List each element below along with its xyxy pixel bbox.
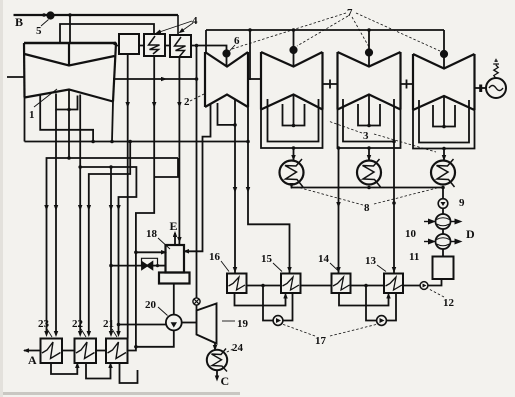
heater 22 (75, 339, 97, 364)
wire line into pump 20 side (119, 324, 167, 326)
wire feedwater line A through heaters (24, 350, 106, 352)
valve bypass loop (142, 258, 158, 265)
valve throttle on turbine 19 inlet (193, 298, 200, 305)
wire branch H167 (80, 167, 136, 334)
shaft coupling T2-LP1 (248, 78, 261, 80)
scan smudge bottom edge (0, 392, 240, 395)
wire T2 extraction to heater 16 (234, 125, 236, 274)
label 23 (38, 318, 52, 337)
junction dot (292, 146, 296, 150)
svg-text:12: 12 (443, 297, 455, 309)
valve box 4a (119, 34, 139, 54)
wire 11 to pump 12 (428, 279, 442, 286)
node C outlet (217, 370, 229, 388)
svg-text:A: A (28, 353, 37, 367)
wire cascade 16 to 15 (235, 293, 286, 306)
cooler box 11 (433, 257, 454, 280)
svg-text:10: 10 (405, 228, 417, 240)
label 7 with dashed leaders (232, 7, 440, 51)
wire pump 12 to heater 13 (403, 285, 420, 287)
svg-text:1: 1 (29, 109, 35, 121)
svg-text:17: 17 (315, 335, 327, 347)
wire extraction branch H158 (47, 158, 179, 334)
turbine U2 (205, 52, 248, 107)
wire HP-T2 shaft line with arrow (113, 78, 197, 80)
junction dot (113, 42, 117, 46)
svg-text:23: 23 (38, 318, 50, 330)
junction dot (392, 201, 396, 205)
wire LP steam header (206, 29, 444, 31)
flow arrows on extraction drops (46, 203, 48, 208)
wire cascade drain 22 to 21 (86, 363, 111, 379)
svg-text:15: 15 (261, 253, 273, 265)
svg-text:9: 9 (459, 197, 465, 209)
wire drain valve box 4b jog down (128, 56, 155, 351)
wire header drop (249, 30, 251, 80)
label 19 (222, 318, 249, 330)
wire 10a to 10b (442, 229, 444, 234)
wire T2 extraction to deaerator (184, 104, 211, 252)
label 12 with dashed leader (428, 289, 455, 310)
generator G (486, 59, 506, 98)
wire turbine feed (69, 15, 71, 43)
shaft coupling LP1-LP2 (323, 80, 338, 89)
label 2 (184, 94, 204, 108)
junction dot (246, 140, 250, 144)
deaerator 18 tank (166, 245, 185, 273)
turbine U1 (HP, double flow) (24, 43, 116, 102)
svg-text:E: E (170, 219, 178, 233)
junction dot (134, 251, 138, 255)
wire valve box row (116, 45, 197, 47)
wire drain valve box 4c to deaerator top (178, 57, 180, 245)
valve 7b (366, 49, 372, 55)
wire turbine 19 exhaust (214, 343, 216, 350)
label 3 with dashed leaders (328, 121, 436, 152)
wire 9 to 10a (442, 208, 444, 214)
wire cascade drain 23 to 22 (51, 363, 77, 374)
turbine LP2 (338, 52, 401, 110)
label 13 (365, 255, 386, 272)
wire heater drain line to valve (111, 265, 142, 267)
junction dot (442, 147, 446, 151)
svg-text:20: 20 (145, 299, 157, 311)
wire HP right corner drop (112, 102, 113, 142)
svg-text:16: 16 (209, 251, 221, 263)
wire steam to valve 6 (197, 46, 227, 67)
svg-text:8: 8 (364, 202, 370, 214)
svg-text:C: C (221, 374, 230, 388)
label 5 (36, 20, 49, 38)
svg-text:4: 4 (192, 15, 198, 27)
junction dot (117, 323, 121, 327)
wire drain valve box 4a (127, 54, 129, 339)
svg-text:24: 24 (232, 342, 244, 354)
junction dot (337, 146, 341, 150)
junction dot (367, 146, 371, 150)
wire LP3 waist drop (443, 96, 445, 127)
junction dot (367, 124, 371, 128)
drain pump 17a (273, 316, 283, 326)
svg-text:11: 11 (409, 251, 419, 263)
junction dot (156, 264, 159, 267)
shaft coupling LP2-LP3 (401, 80, 414, 89)
wire LP2 condenser drop (368, 148, 370, 161)
junction dot (109, 165, 113, 169)
wire second steam header (60, 24, 154, 43)
svg-text:18: 18 (146, 228, 158, 240)
label 6 (230, 35, 241, 51)
label 15 (261, 253, 282, 272)
wire LP2 manifold (338, 110, 401, 149)
wire LP1 exhaust U2 (268, 99, 319, 142)
condenser 8a (280, 159, 304, 187)
heater 21 (106, 339, 128, 364)
wire LP1 manifold (261, 110, 323, 149)
svg-text:D: D (466, 227, 475, 241)
svg-text:2: 2 (184, 96, 190, 108)
label 20 (145, 299, 168, 316)
junction dot (110, 140, 114, 144)
wire steam line to pump turbine (196, 46, 198, 299)
wire LP1 exhaust U1 (283, 104, 305, 126)
valve on deaerator inlet (142, 262, 152, 269)
wire HP waist extraction down (68, 90, 70, 159)
wire LP3 exhaust U1 (433, 105, 455, 127)
label 21 (103, 318, 117, 337)
heater 15 (281, 274, 301, 294)
turbine LP3 (413, 54, 475, 110)
heater 23 (41, 339, 63, 364)
junction dot (292, 124, 296, 128)
wire deaerator left inlet (136, 251, 166, 253)
wire LP3 manifold (413, 110, 475, 149)
junction dot (442, 125, 446, 129)
label 8 with dashed leaders (297, 187, 437, 214)
label 4 with leader arrows (158, 15, 198, 33)
ejector 10b (424, 234, 459, 249)
wire drain pump loop 13 (366, 286, 396, 321)
junction dot (292, 28, 296, 32)
heater 13 (384, 274, 403, 294)
node B main steam line (14, 15, 179, 35)
wire HP inlet stub (7, 76, 25, 78)
wire 10b to 11 (442, 249, 444, 257)
wire extraction zig 2 (40, 96, 93, 142)
wire LP2 extraction to heater 13 (393, 142, 395, 274)
condenser 24 (207, 349, 227, 372)
junction dot (195, 44, 199, 48)
deaerator pedestal (159, 273, 190, 284)
shaft coupling LP3-generator (475, 87, 487, 89)
label 18 (146, 228, 170, 249)
junction dot (367, 186, 371, 190)
junction dot (248, 28, 252, 32)
junction dot (42, 13, 46, 17)
valve box 4b (144, 34, 165, 56)
wire HP exhaust left down (24, 98, 26, 142)
wire extraction to heater 22 a (79, 95, 81, 334)
wire pump 20 discharge to feed line (136, 330, 174, 346)
valve 5 (47, 12, 53, 18)
wire LP1 condenser drop (293, 148, 295, 161)
wire pump 20 shaft (182, 322, 197, 324)
label 1 (29, 89, 57, 121)
svg-text:3: 3 (363, 130, 369, 142)
node E vent (170, 219, 178, 245)
junction dot (91, 140, 95, 144)
wire LP3 condenser drop (443, 149, 445, 161)
turbine LP1 (261, 52, 323, 110)
label 17 with dashed leaders (282, 324, 378, 347)
svg-text:21: 21 (103, 318, 114, 330)
wire LP2 waist drop (368, 95, 370, 126)
junction dot (195, 77, 199, 81)
junction dot (67, 108, 71, 112)
drain pump 17b (377, 316, 387, 326)
svg-text:5: 5 (36, 25, 42, 37)
wire LP2 exhaust U1 (358, 104, 380, 126)
feed pump 20 (166, 315, 182, 331)
wire condensate drain manifold (292, 184, 444, 188)
junction dot (261, 284, 265, 288)
valve box 4c (170, 35, 191, 57)
wire LP1 waist drop (293, 95, 295, 126)
wire reheat branch to heater 22 b (89, 142, 130, 334)
valve 6 (223, 50, 229, 56)
junction dot (78, 165, 82, 169)
svg-text:22: 22 (72, 318, 84, 330)
drive turbine 19 (197, 304, 217, 344)
junction dot (392, 140, 396, 144)
svg-text:B: B (15, 15, 23, 29)
svg-text:13: 13 (365, 255, 377, 267)
wire T2 exhaust U (218, 100, 236, 125)
label 16 (209, 251, 229, 272)
wire braid link (154, 158, 178, 177)
valve 9 (438, 199, 448, 209)
junction dot (367, 28, 371, 32)
junction dot (441, 186, 445, 190)
valve 7c (441, 51, 447, 57)
wire HP extraction U (56, 94, 78, 110)
junction dot (134, 345, 138, 349)
wire LP3 exhaust U2 (419, 100, 469, 143)
wire cascade 14 to 13 (339, 293, 389, 306)
junction dot (67, 156, 71, 160)
label 22 (72, 318, 86, 337)
heater 16 (227, 274, 247, 294)
junction dot (68, 13, 72, 17)
wire cold reheat header H141 (25, 141, 249, 143)
wire cascade drain 21 (120, 363, 138, 383)
wire T2 extraction to heater 15 (248, 107, 290, 274)
wire LP2 extraction to heater 14 (338, 148, 340, 274)
svg-text:19: 19 (237, 318, 249, 330)
wire drain pump loop 15 (263, 286, 293, 321)
exciter zigzag (494, 65, 498, 79)
condenser 8c (431, 159, 455, 187)
wire condensate line through heaters (247, 285, 385, 287)
junction dot (109, 264, 113, 268)
wire LP2 exhaust U2 right (343, 99, 394, 142)
wire drop to ejector chain (442, 188, 444, 199)
wire extraction to heater 23 b (55, 110, 57, 334)
ejector 10a (424, 214, 459, 229)
junction dot (364, 284, 368, 288)
svg-text:14: 14 (318, 253, 330, 265)
junction dot (128, 140, 132, 144)
condenser 8b (357, 159, 381, 187)
junction dot (233, 123, 237, 127)
label 24 with dashed leader (224, 342, 244, 354)
pump 12 (420, 282, 428, 290)
heater 14 (332, 274, 351, 294)
wire deaerator to feed pump 20 (173, 284, 175, 315)
valve 7a (290, 47, 296, 53)
wire extraction to heater 21 a (110, 167, 112, 334)
label 14 (318, 253, 339, 272)
